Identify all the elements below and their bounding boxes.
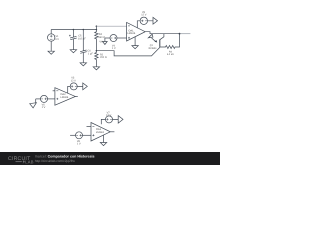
resistor R4: [95, 30, 106, 51]
op-amp OA2: [53, 88, 78, 106]
ground under OA1: [134, 37, 136, 46]
junction node at R4: [96, 29, 98, 31]
net flag right of V5: [148, 17, 158, 24]
voltage source V1: [48, 30, 60, 52]
svg-text:200 Ω: 200 Ω: [100, 56, 107, 59]
svg-text:1 V: 1 V: [42, 106, 46, 109]
ground under V1: [48, 51, 54, 54]
svg-text:1 µF: 1 µF: [88, 53, 94, 56]
ground under R2: [93, 67, 99, 70]
voltage source V6 input OA2: [36, 95, 55, 109]
svg-text:12 V: 12 V: [71, 79, 76, 82]
svg-text:102 µF: 102 µF: [78, 38, 86, 41]
voltage source V5 12V supply OA1: [137, 11, 147, 28]
wire hysteresis feedback: [96, 47, 159, 56]
voltage source V4 input OA1: [105, 35, 127, 51]
svg-text:marcel: Comparador con Histere: marcel: Comparador con Histeresis: [35, 154, 95, 158]
node jog to input rail: [95, 26, 97, 29]
svg-text:VH: VH: [99, 41, 103, 44]
svg-text:12 V: 12 V: [106, 114, 111, 117]
wire top rail left: [51, 29, 96, 31]
svg-text:2N3904: 2N3904: [148, 47, 157, 50]
svg-text:12 V: 12 V: [141, 14, 146, 17]
resistor R3: [160, 34, 180, 57]
svg-text:960 Ω: 960 Ω: [98, 36, 105, 39]
ground under C5: [70, 50, 76, 53]
ground under C6: [80, 63, 86, 66]
watermark footer bar: [0, 152, 220, 165]
voltage source V7 supply OA3: [101, 111, 112, 124]
svg-text:LM324: LM324: [60, 96, 68, 99]
svg-text:6.2 kΩ: 6.2 kΩ: [167, 53, 174, 56]
svg-text:http://circuitlab.com/c2jq2fhx: http://circuitlab.com/c2jq2fhx: [35, 159, 76, 163]
transistor Q1: [148, 34, 164, 51]
net flag right of V3: [77, 83, 87, 90]
voltage source V8 input OA3: [70, 132, 91, 146]
capacitor C6: [80, 30, 93, 63]
net flag down-left of V6: [30, 99, 37, 108]
op-amp OA3: [87, 123, 115, 142]
resistor R2: [95, 51, 107, 67]
net flag VH: [99, 38, 107, 45]
op-amp OA1: [127, 22, 146, 41]
svg-text:1 V: 1 V: [77, 143, 81, 146]
net flag on output diagonal: [148, 34, 153, 38]
svg-text:LM324: LM324: [96, 131, 104, 134]
wire input rail to op-amp: [96, 25, 126, 27]
node divider junction: [96, 50, 98, 52]
svg-text:1 V: 1 V: [112, 47, 116, 50]
ground under OA3: [103, 135, 105, 143]
junction node at C6: [83, 29, 85, 31]
voltage source V3 supply OA2: [68, 77, 78, 94]
net flag right of V7: [113, 116, 124, 124]
wire output rail: [145, 32, 179, 34]
junction node at C5: [73, 29, 75, 31]
svg-text:LAB: LAB: [25, 160, 33, 165]
capacitor C5: [69, 30, 86, 50]
svg-text:LM324: LM324: [127, 32, 135, 35]
svg-text:9 V: 9 V: [55, 38, 59, 41]
